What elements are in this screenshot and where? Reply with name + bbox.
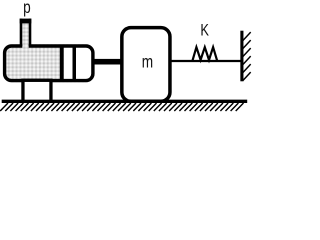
cylinder body fill [3,44,95,82]
pedestal base [23,80,51,101]
inlet pipe walls [20,19,32,47]
cylinder right chamber (white) [64,45,94,81]
piston head [60,47,64,80]
spring K zigzag [192,47,217,61]
svg-text:p: p [23,0,31,18]
spring axis line [170,60,242,62]
mass block m [122,28,170,102]
piston rod [92,59,122,65]
svg-text:K: K [200,22,209,40]
ground hatching [0,103,243,111]
ground line [2,100,248,103]
wall anchor [240,31,243,82]
cylinder end-cap wall [73,46,77,82]
svg-text:m: m [142,53,153,72]
cylinder outline [5,46,93,81]
inlet pipe interior [22,23,28,48]
wall hatching [243,32,251,81]
